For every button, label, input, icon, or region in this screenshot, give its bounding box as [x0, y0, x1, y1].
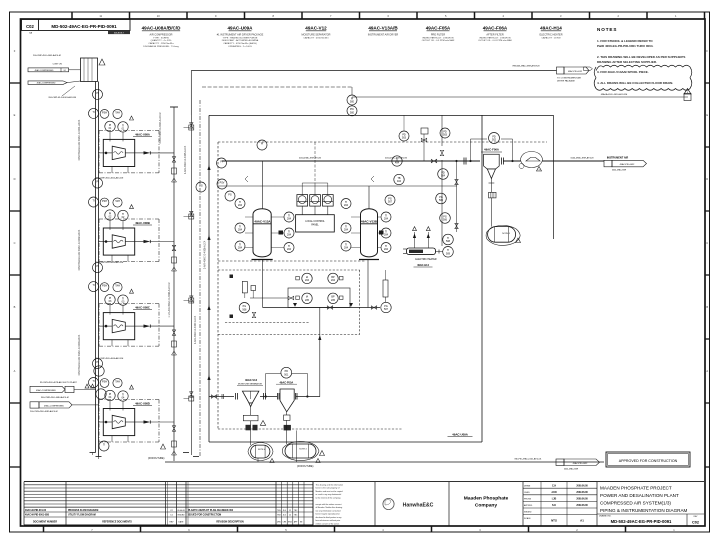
- svg-text:C02: C02: [692, 521, 699, 525]
- svg-text:Company: Company: [475, 503, 498, 509]
- svg-text:COMPRESSED AIR SYSTEM(1/3): COMPRESSED AIR SYSTEM(1/3): [600, 501, 671, 506]
- svg-text:C02: C02: [26, 24, 34, 29]
- svg-text:NOTE 4: NOTE 4: [299, 449, 307, 451]
- svg-text:DESICCANT : ACTIVATED ALUMINA: DESICCANT : ACTIVATED ALUMINA: [222, 39, 259, 42]
- svg-text:NOTES: NOTES: [597, 27, 617, 32]
- svg-text:501: 501: [284, 373, 289, 376]
- svg-text:MD-502-49AC-EG-PR-PID-0091: MD-502-49AC-EG-PR-PID-0091: [611, 519, 672, 524]
- svg-text:505: 505: [439, 199, 444, 202]
- svg-text:ISSUED FOR CONSTRUCTION: ISSUED FOR CONSTRUCTION: [188, 515, 222, 517]
- svg-text:PG: PG: [199, 184, 203, 187]
- svg-text:C2: C2: [289, 515, 291, 517]
- svg-text:APPROVED FOR CONSTRUCTION: APPROVED FOR CONSTRUCTION: [619, 459, 678, 463]
- svg-text:J.KO: J.KO: [551, 491, 557, 494]
- svg-text:INSTRUMENT AIR DRYER: INSTRUMENT AIR DRYER: [368, 33, 399, 36]
- svg-text:C2: C2: [289, 510, 291, 512]
- svg-text:C: C: [706, 241, 708, 245]
- svg-text:2009.06.08: 2009.06.08: [576, 492, 588, 494]
- svg-text:2009.06.08: 2009.06.08: [576, 485, 588, 487]
- svg-text:49AC-COMPRESSED: 49AC-COMPRESSED: [44, 405, 64, 408]
- svg-text:204: 204: [384, 218, 389, 221]
- svg-text:200-CWS-49-D-4085-A4C4-M: 200-CWS-49-D-4085-A4C4-M: [30, 410, 58, 413]
- svg-text:204: 204: [238, 247, 243, 250]
- svg-text:PSH: PSH: [102, 111, 107, 114]
- svg-text:2009.06.08: 2009.06.08: [576, 505, 588, 507]
- svg-text:503: 503: [443, 134, 448, 137]
- svg-text:49AC-V12: 49AC-V12: [305, 26, 327, 31]
- svg-text:DISCHARGE AIR 49AC-D-4003-A4C4: DISCHARGE AIR 49AC-D-4003-A4C4: [78, 334, 81, 375]
- svg-text:DRAWING NO.: DRAWING NO.: [599, 515, 612, 518]
- svg-text:OUTLET OIL : 0.5 PPM w/w MAX: OUTLET OIL : 0.5 PPM w/w MAX: [422, 39, 455, 42]
- svg-text:written consent of the owner.: written consent of the owner.: [316, 522, 341, 525]
- svg-text:200-CMP-49-D-4001-A4C4-M: 200-CMP-49-D-4001-A4C4-M: [48, 96, 76, 99]
- svg-text:MOISTURE SEPARATOR: MOISTURE SEPARATOR: [238, 382, 263, 385]
- svg-text:TI: TI: [92, 380, 94, 383]
- svg-text:360-CWR-49-D-4084-A4C4-M: 360-CWR-49-D-4084-A4C4-M: [41, 396, 69, 399]
- svg-text:204: 204: [384, 248, 389, 251]
- svg-text:49AC-F06A: 49AC-F06A: [484, 148, 499, 152]
- svg-text:0044-49AC-SSH-AT/2-M: 0044-49AC-SSH-AT/2-M: [571, 156, 594, 159]
- svg-text:204: 204: [287, 248, 292, 251]
- svg-text:herein may be reproduced or: herein may be reproduced or: [316, 513, 341, 516]
- svg-text:49AC-U08D: 49AC-U08D: [135, 402, 150, 406]
- svg-text:S.K: S.K: [552, 504, 556, 507]
- svg-text:HELIAS-49AC-SSH-AT/09-M: HELIAS-49AC-SSH-AT/09-M: [513, 64, 540, 67]
- svg-text:MD-502-49AC-EG-PR-PID-0091: MD-502-49AC-EG-PR-PID-0091: [51, 24, 117, 29]
- svg-text:CAPACITY : 2350 Nm3/hr: CAPACITY : 2350 Nm3/hr: [148, 42, 173, 45]
- svg-text:TAH: TAH: [115, 285, 120, 288]
- svg-text:QUANTITY : 4 x 33%: QUANTITY : 4 x 33%: [151, 39, 172, 42]
- svg-text:1. FOR STENCIL & LEGEND REFER: 1. FOR STENCIL & LEGEND REFER TO: [597, 39, 653, 43]
- svg-text:A: A: [706, 369, 708, 373]
- svg-text:508: 508: [242, 308, 247, 311]
- svg-text:49AC-V13A/B: 49AC-V13A/B: [368, 26, 398, 31]
- svg-text:2-AIR-49AC-D-4007-A1C4: 2-AIR-49AC-D-4007-A1C4: [194, 315, 197, 344]
- svg-text:99-CWS-49-D-4078-A4C4-M TO PL: 99-CWS-49-D-4078-A4C4-M TO PLANT: [40, 381, 78, 384]
- svg-text:AFTER FILTER: AFTER FILTER: [486, 33, 504, 36]
- svg-text:PI: PI: [96, 92, 99, 95]
- svg-text:INSTRUMENT AIR: INSTRUMENT AIR: [607, 156, 628, 159]
- svg-text:49AC-V12: 49AC-V12: [245, 378, 258, 382]
- svg-text:49AC-U08A/B/C/D: 49AC-U08A/B/C/D: [142, 26, 181, 31]
- svg-text:49AC-COMPRESSED: 49AC-COMPRESSED: [37, 82, 56, 85]
- svg-text:CHKD: CHKD: [524, 492, 530, 494]
- svg-text:49A-IA-49-D-4010-A1C4-M: 49A-IA-49-D-4010-A1C4-M: [601, 93, 628, 96]
- svg-text:204: 204: [238, 204, 243, 207]
- svg-text:to the interest of the company: to the interest of the company.: [316, 496, 342, 499]
- svg-text:ISSUED: ISSUED: [524, 512, 532, 514]
- svg-text:SCALE: SCALE: [524, 517, 531, 520]
- svg-text:507: 507: [384, 308, 389, 311]
- svg-text:CAPACITY : 18 KW: CAPACITY : 18 KW: [541, 36, 561, 39]
- svg-text:nor any information contained: nor any information contained: [316, 509, 341, 512]
- svg-text:ELECTRIC HEATER: ELECTRIC HEATER: [539, 33, 562, 36]
- svg-text:DRWN: DRWN: [524, 485, 531, 487]
- svg-text:24: 24: [63, 70, 65, 72]
- svg-text:TYPE : SCREW: TYPE : SCREW: [153, 37, 170, 39]
- svg-text:#1 INSTRUMENT AIR DRYER PACKAG: #1 INSTRUMENT AIR DRYER PACKAGE: [217, 33, 264, 36]
- svg-text:200-CMP-49-D-4001-A4C4-M: 200-CMP-49-D-4001-A4C4-M: [33, 54, 61, 57]
- svg-text:DRAWING AFTER SELECTING SUPPLI: DRAWING AFTER SELECTING SUPPLIER.: [597, 60, 657, 64]
- svg-text:PANEL: PANEL: [311, 223, 319, 226]
- svg-text:(FOR FUTURE): (FOR FUTURE): [297, 466, 314, 468]
- svg-text:CONT ON: CONT ON: [53, 64, 63, 66]
- svg-text:2009.06.08: 2009.06.08: [576, 499, 588, 501]
- svg-text:PLANT:C-002/PLOT PLAN-CHANGED-: PLANT:C-002/PLOT PLAN-CHANGED-002: [188, 509, 234, 512]
- svg-text:49AC-F06A: 49AC-F06A: [483, 26, 508, 31]
- svg-text:49AC-PID-0092: 49AC-PID-0092: [568, 70, 583, 73]
- svg-text:503: 503: [402, 137, 407, 140]
- svg-text:OPERATING : 2 x 100%: OPERATING : 2 x 100%: [228, 45, 252, 48]
- svg-text:or used in any way detrimental: or used in any way detrimental: [316, 493, 342, 496]
- svg-text:3. FOR 49AC-V13A/B SPOOL PIECE: 3. FOR 49AC-V13A/B SPOOL PIECE.: [597, 70, 649, 74]
- svg-text:49AC-V13B: 49AC-V13B: [361, 220, 378, 224]
- svg-text:A1: A1: [580, 519, 584, 523]
- svg-text:49AC-COMPRESSED: 49AC-COMPRESSED: [36, 389, 56, 392]
- svg-text:DISCHARGE PRESSURE : 7.5 barg: DISCHARGE PRESSURE : 7.5 barg: [143, 45, 179, 48]
- svg-text:A: A: [14, 369, 16, 373]
- svg-text:TAH: TAH: [115, 380, 120, 383]
- svg-text:507: 507: [388, 201, 393, 204]
- svg-text:OUTLET OIL : 0.01 PPM w/w MAX: OUTLET OIL : 0.01 PPM w/w MAX: [478, 39, 512, 42]
- svg-text:49AC-PID-0092: 49AC-PID-0092: [620, 163, 636, 166]
- svg-text:POWER AND DESALINATION PLANT: POWER AND DESALINATION PLANT: [600, 493, 679, 498]
- svg-text:404: 404: [397, 180, 402, 183]
- svg-text:HanwhaE&C: HanwhaE&C: [403, 502, 434, 508]
- svg-text:DRYER PACKAGE: DRYER PACKAGE: [557, 80, 575, 83]
- svg-text:0044-49AC-SSH-AT/1-M: 0044-49AC-SSH-AT/1-M: [299, 157, 321, 160]
- svg-text:MOISTURE SEPARATOR: MOISTURE SEPARATOR: [302, 33, 331, 36]
- svg-text:TI: TI: [92, 111, 94, 114]
- svg-text:CAPACITY : 4700 Nm3/hr: CAPACITY : 4700 Nm3/hr: [303, 36, 328, 39]
- svg-text:508: 508: [446, 240, 451, 243]
- svg-text:204: 204: [344, 204, 349, 207]
- svg-text:49AC-U08B: 49AC-U08B: [135, 221, 150, 225]
- svg-text:E: E: [706, 113, 708, 117]
- svg-text:205: 205: [331, 299, 336, 302]
- svg-text:204: 204: [331, 279, 336, 282]
- svg-text:TI: TI: [92, 284, 94, 287]
- svg-text:2. THIS DRAWING WILL BE DEVELO: 2. THIS DRAWING WILL BE DEVELOPED AS PER…: [597, 55, 685, 59]
- svg-text:PSH: PSH: [102, 380, 107, 383]
- svg-text:PSH: PSH: [102, 200, 107, 203]
- svg-text:C.H: C.H: [552, 484, 556, 487]
- svg-text:PI: PI: [96, 361, 99, 364]
- svg-text:40AC-M-PID-0001-00B: 40AC-M-PID-0001-00B: [25, 514, 49, 517]
- svg-text:204: 204: [287, 234, 292, 237]
- svg-text:506: 506: [443, 219, 448, 222]
- svg-text:204: 204: [238, 229, 243, 232]
- svg-text:404: 404: [395, 162, 400, 165]
- svg-text:DISCHARGE AIR 49AC-D-4001-A4C4: DISCHARGE AIR 49AC-D-4001-A4C4: [78, 119, 81, 160]
- svg-text:49AC-PID-0092: 49AC-PID-0092: [573, 462, 589, 465]
- svg-text:49AC-U09A: 49AC-U09A: [227, 26, 253, 31]
- svg-text:49AC-U08C: 49AC-U08C: [135, 306, 150, 310]
- svg-text:2-AIR-49AC-D-4005-A1C4: 2-AIR-49AC-D-4005-A1C4: [184, 145, 187, 174]
- svg-text:MD-PID-49AC-0101-AT/D-01: MD-PID-49AC-0101-AT/D-01: [515, 458, 543, 461]
- svg-text:504: 504: [441, 175, 446, 178]
- svg-text:PIPING & INSTRUMENTATION DIAGR: PIPING & INSTRUMENTATION DIAGRAM: [600, 508, 688, 513]
- svg-text:204: 204: [344, 229, 349, 232]
- svg-text:0044-49AC-SSH: 0044-49AC-SSH: [612, 169, 627, 172]
- svg-text:DOCUMENT NUMBER: DOCUMENT NUMBER: [33, 522, 57, 524]
- svg-text:PROCESS FLOW DIAGRAM: PROCESS FLOW DIAGRAM: [68, 509, 98, 512]
- svg-text:P&ID 4000-EG-PR-PID-0001 THRU: P&ID 4000-EG-PR-PID-0001 THRU 0004.: [597, 44, 654, 48]
- svg-text:PRE FILTER: PRE FILTER: [431, 33, 445, 36]
- svg-text:PSV: PSV: [220, 181, 225, 184]
- svg-text:RATED PARTICLE : 1 MICRON: RATED PARTICLE : 1 MICRON: [423, 36, 454, 39]
- svg-text:500: 500: [350, 111, 355, 114]
- svg-text:CAPACITY : 4700 Nm3/hr (EACH): CAPACITY : 4700 Nm3/hr (EACH): [223, 42, 257, 45]
- svg-text:PI: PI: [220, 160, 223, 163]
- svg-text:E: E: [14, 113, 16, 117]
- svg-text:PI: PI: [96, 265, 99, 268]
- svg-text:(FOR FUTURE): (FOR FUTURE): [148, 458, 165, 460]
- svg-text:ISSUED: ISSUED: [177, 515, 185, 517]
- svg-text:APPRVD: APPRVD: [524, 504, 533, 507]
- svg-text:C: C: [14, 241, 16, 245]
- svg-text:DISCHARGE AIR 49AC-D-4002-A4C4: DISCHARGE AIR 49AC-D-4002-A4C4: [78, 229, 81, 270]
- svg-text:I.JB: I.JB: [552, 498, 557, 501]
- svg-text:TAH: TAH: [115, 111, 120, 114]
- svg-text:of Maaden. Neither this drawin: of Maaden. Neither this drawing: [316, 506, 343, 509]
- svg-text:REFERENCE DOCUMENTS: REFERENCE DOCUMENTS: [102, 522, 132, 524]
- svg-text:D: D: [706, 177, 708, 181]
- svg-text:PROSS: PROSS: [524, 499, 532, 501]
- svg-text:49AC-U09A: 49AC-U09A: [452, 432, 469, 436]
- svg-text:49AC-H14: 49AC-H14: [540, 26, 562, 31]
- svg-text:ELECTRIC HEATER: ELECTRIC HEATER: [415, 258, 436, 261]
- svg-text:PI: PI: [261, 142, 264, 145]
- svg-text:REVISION DESCRIPTION: REVISION DESCRIPTION: [216, 522, 244, 524]
- svg-text:2-AIR-49AC-D-4004-A1C4-M: 2-AIR-49AC-D-4004-A1C4-M: [159, 112, 162, 143]
- svg-text:204: 204: [384, 234, 389, 237]
- svg-text:AIR COMPRESSOR: AIR COMPRESSOR: [150, 33, 173, 36]
- svg-text:NTS: NTS: [551, 519, 557, 523]
- svg-text:TYPE : HEATED BLOWER PURGE: TYPE : HEATED BLOWER PURGE: [223, 36, 258, 39]
- svg-text:0044-49AC-SSH: 0044-49AC-SSH: [564, 468, 579, 471]
- svg-text:UTILITY FLOW DIAGRAM: UTILITY FLOW DIAGRAM: [68, 514, 96, 517]
- svg-text:TI: TI: [92, 199, 94, 202]
- svg-text:49AC-COMPRESSED: 49AC-COMPRESSED: [35, 69, 54, 72]
- svg-text:DATE: DATE: [179, 521, 185, 524]
- svg-text:TO #2 INSTRUMENT AIR: TO #2 INSTRUMENT AIR: [557, 76, 581, 79]
- svg-text:PI: PI: [96, 180, 99, 183]
- svg-text:49AC-H14: 49AC-H14: [417, 264, 429, 267]
- svg-text:40AC-M-PID-001-00: 40AC-M-PID-001-00: [25, 509, 47, 512]
- svg-text:form whatsoever without prior: form whatsoever without prior: [316, 519, 341, 522]
- svg-text:49AC-F05A: 49AC-F05A: [279, 380, 293, 384]
- svg-text:09.06.08: 09.06.08: [177, 510, 184, 512]
- svg-text:MAADEN PHOSPHATE PROJECT: MAADEN PHOSPHATE PROJECT: [600, 486, 672, 491]
- svg-text:NOTE 4: NOTE 4: [502, 233, 510, 235]
- svg-text:NOTE 4: NOTE 4: [258, 449, 266, 451]
- svg-text:RATED PARTICLE : 1 MICRON: RATED PARTICLE : 1 MICRON: [480, 36, 511, 39]
- svg-text:AS-BUILT: AS-BUILT: [114, 32, 124, 35]
- svg-text:49AC-F05A: 49AC-F05A: [426, 26, 451, 31]
- svg-text:502: 502: [492, 139, 497, 142]
- svg-text:509: 509: [446, 252, 451, 255]
- svg-text:49AC-U08A: 49AC-U08A: [135, 132, 150, 136]
- svg-text:disclosed to third parties in: disclosed to third parties in any: [316, 516, 342, 519]
- svg-text:204: 204: [287, 218, 292, 221]
- svg-text:2-AIR-49AC-D-4006-A1C4: 2-AIR-49AC-D-4006-A1C4: [204, 240, 207, 269]
- svg-text:204: 204: [344, 247, 349, 250]
- svg-text:TAH: TAH: [115, 200, 120, 203]
- svg-text:PSH: PSH: [102, 285, 107, 288]
- svg-text:500: 500: [350, 101, 355, 104]
- svg-text:4. ALL DRAINS WILL BE COLLECTE: 4. ALL DRAINS WILL BE COLLECTED FLOOR DR…: [597, 81, 673, 85]
- svg-text:D: D: [14, 177, 16, 181]
- svg-text:except with the written consen: except with the written consent: [316, 503, 342, 506]
- svg-text:TI: TI: [103, 443, 105, 446]
- svg-text:This drawing and the informati: This drawing and the information: [316, 483, 343, 486]
- svg-text:B: B: [706, 305, 708, 309]
- svg-text:herein is the sole property of: herein is the sole property of: [316, 487, 340, 490]
- svg-text:LOCAL CONTROL: LOCAL CONTROL: [305, 220, 325, 223]
- svg-text:1 1/2-AIR-49AC-D-4008-A1C4-M: 1 1/2-AIR-49AC-D-4008-A1C4-M: [168, 282, 171, 317]
- svg-text:Maaden Phosphate: Maaden Phosphate: [464, 496, 509, 502]
- svg-text:205: 205: [305, 299, 310, 302]
- svg-text:B: B: [14, 305, 16, 309]
- svg-text:49AC-V13A: 49AC-V13A: [254, 220, 271, 224]
- svg-text:Maaden and must not be copied: Maaden and must not be copied: [316, 490, 343, 493]
- svg-text:PG: PG: [228, 193, 232, 196]
- svg-text:204: 204: [305, 279, 310, 282]
